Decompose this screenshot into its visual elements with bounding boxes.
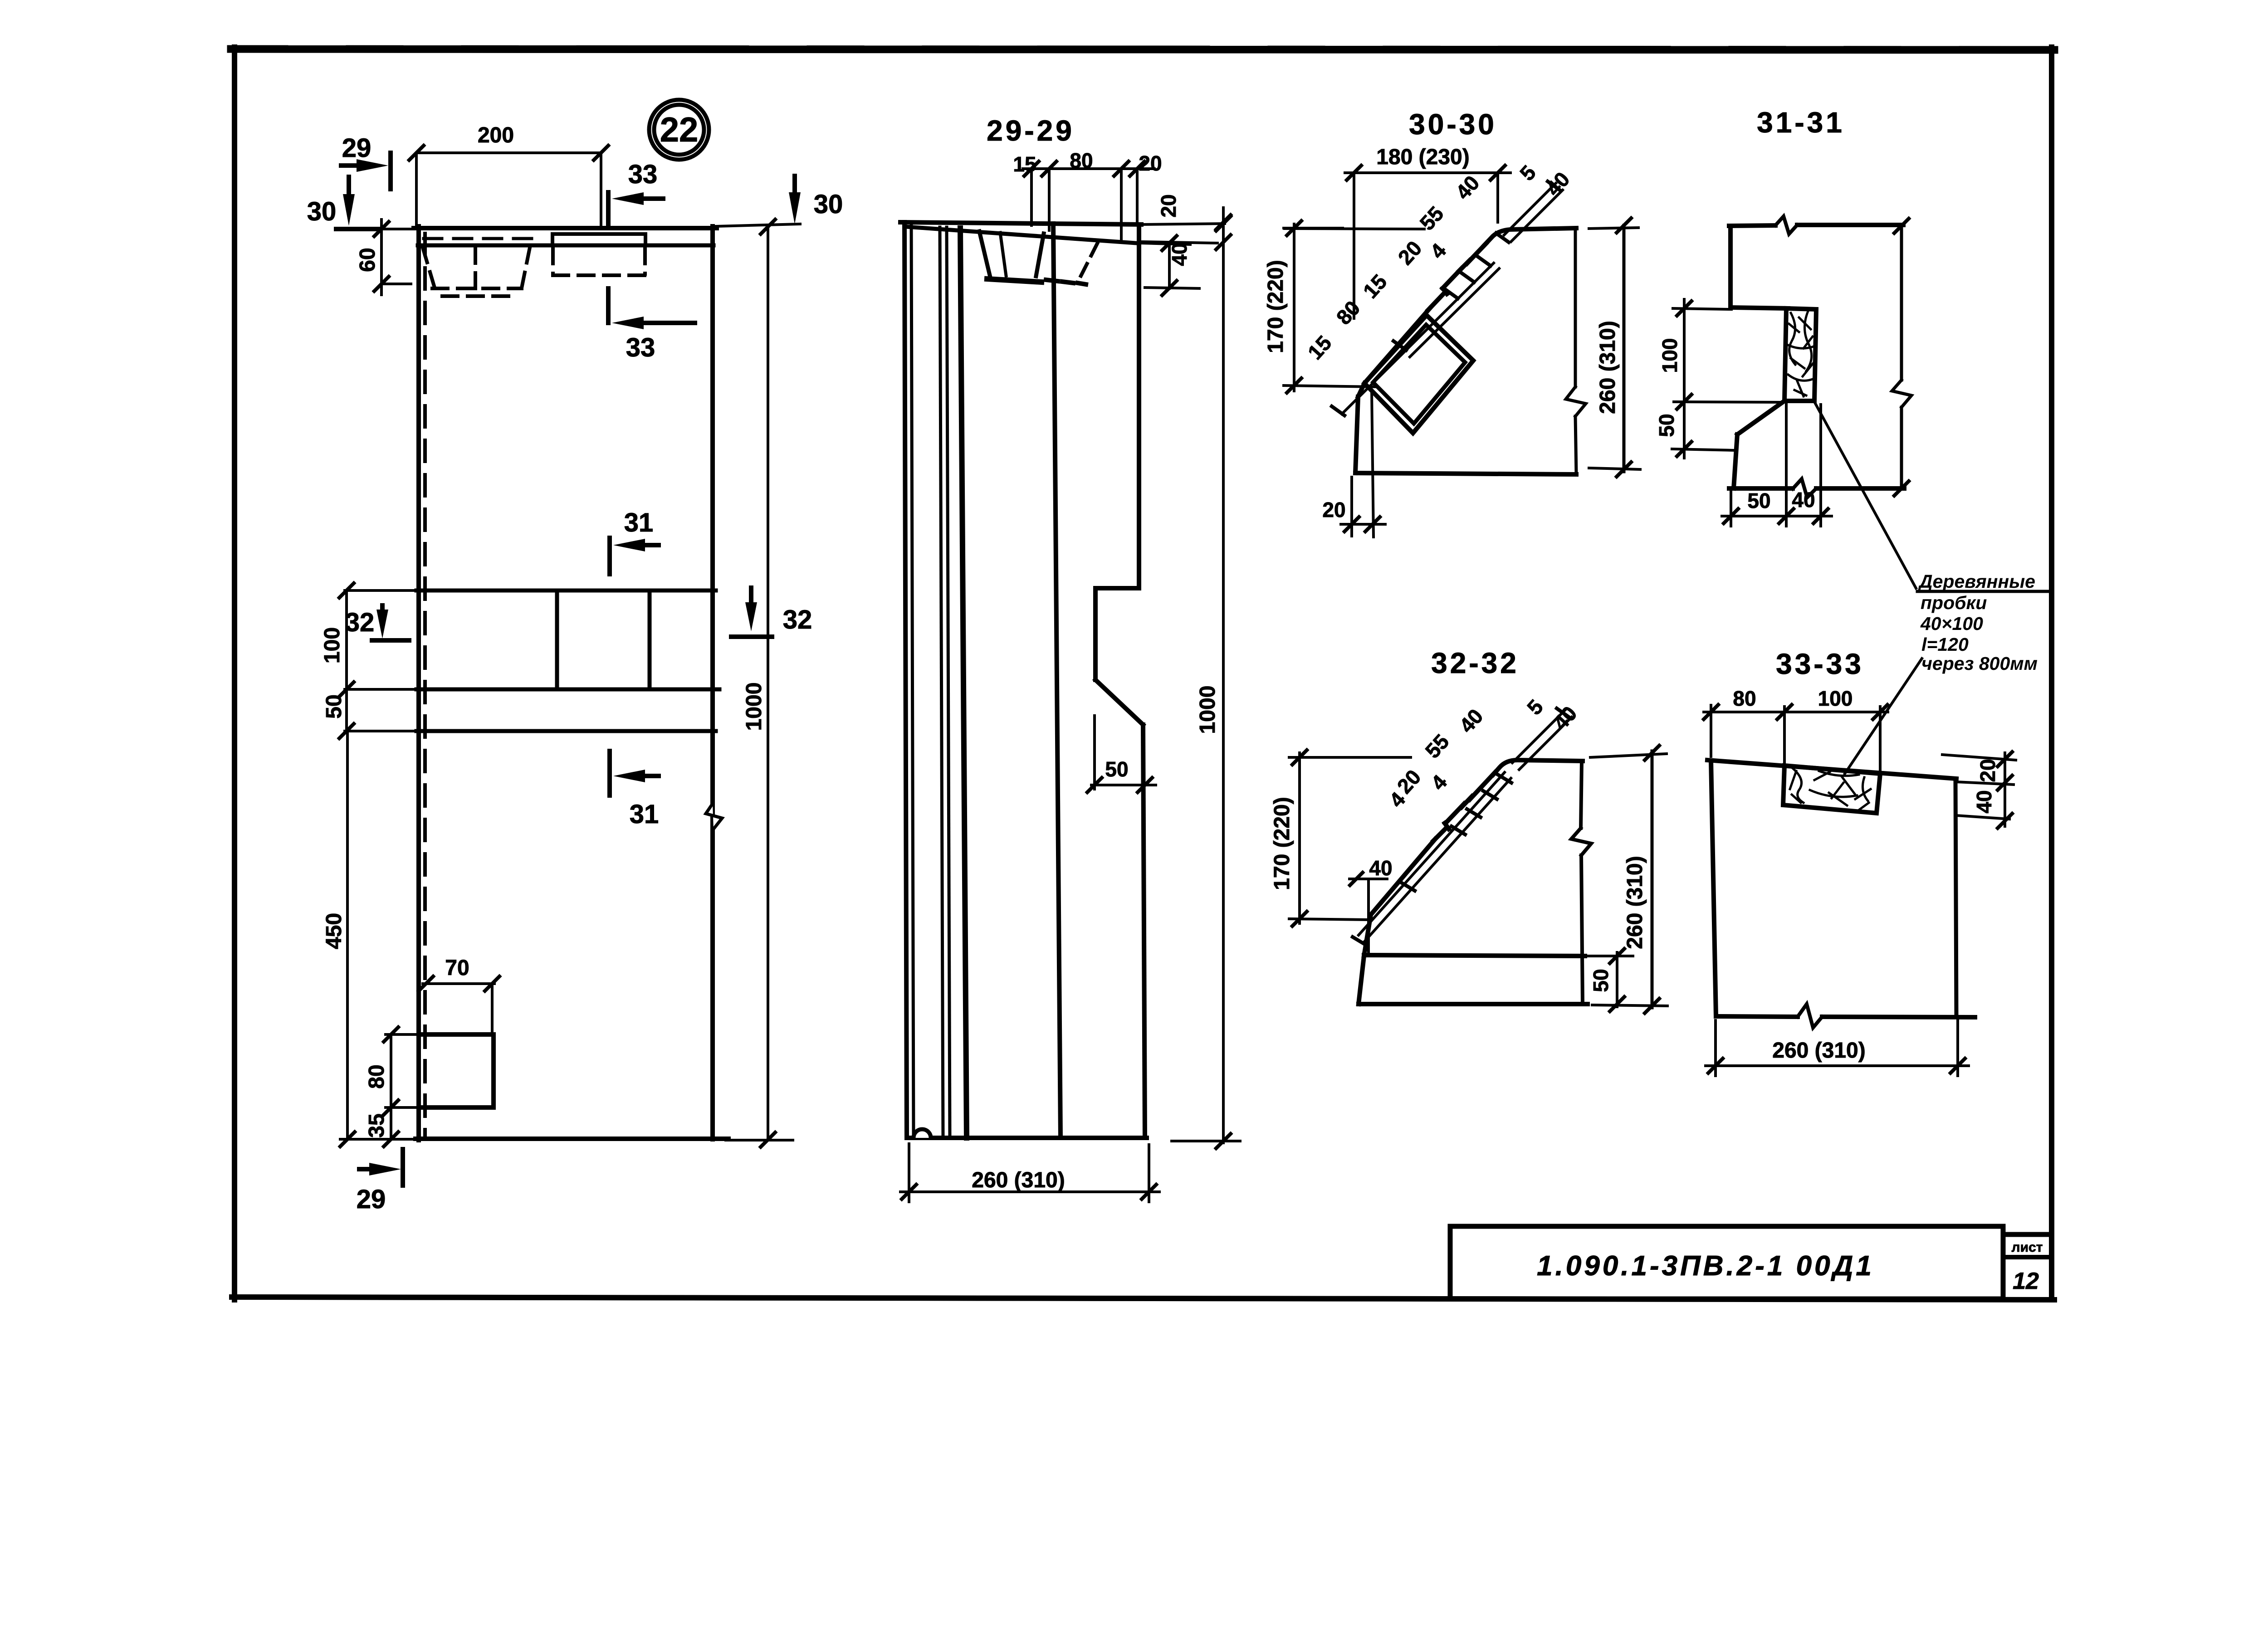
svg-text:33-33: 33-33 bbox=[1776, 648, 1864, 680]
panel elevation: outline bbox=[414, 226, 728, 1140]
svg-text:450: 450 bbox=[322, 913, 346, 949]
svg-text:33: 33 bbox=[628, 160, 658, 189]
svg-text:30: 30 bbox=[307, 197, 337, 226]
section 33-33: dim 260 (310) bottom bbox=[1706, 1020, 1969, 1076]
svg-text:12: 12 bbox=[2013, 1268, 2039, 1294]
svg-text:60: 60 bbox=[356, 248, 380, 272]
section 29-29: vertical profile lines bbox=[904, 222, 1061, 1138]
section 29-29: pocket hidden dashes bbox=[1046, 280, 1086, 284]
dimension 80 (notch) bbox=[384, 1027, 422, 1115]
section mark 33 top bbox=[608, 192, 663, 227]
dimension 200 bbox=[409, 146, 608, 227]
panel elevation: top flange inner line bbox=[418, 244, 714, 248]
section mark 32 left bbox=[372, 605, 409, 640]
section 32-32: oblique dims along slope bbox=[1353, 708, 1572, 945]
section 33-33: top edge (sloped) bbox=[1707, 760, 1956, 779]
section 32-32: oblique dim labels bbox=[1384, 695, 1581, 812]
svg-text:80: 80 bbox=[1733, 687, 1756, 710]
svg-text:50: 50 bbox=[1655, 414, 1678, 437]
section mark 31 upper bbox=[610, 538, 659, 574]
svg-text:через 800мм: через 800мм bbox=[1921, 653, 2038, 674]
svg-text:22: 22 bbox=[660, 111, 699, 149]
section mark 30 right bbox=[789, 176, 801, 224]
panel elevation: hidden edge dashed line bbox=[423, 234, 427, 1136]
section 33-33: left edge bbox=[1711, 761, 1716, 1016]
svg-text:100: 100 bbox=[320, 627, 344, 663]
section 29-29: bottom edge with key notch bbox=[909, 1136, 1147, 1140]
panel elevation: break mark on right edge bbox=[706, 804, 722, 829]
svg-text:35: 35 bbox=[365, 1113, 389, 1137]
section 33-33: dims 20 40 right bbox=[1942, 752, 2016, 828]
section 31-31: wood grain bbox=[1787, 311, 1813, 396]
section mark 29 bottom bbox=[359, 1149, 403, 1185]
note underline bbox=[1917, 590, 2048, 593]
svg-text:33: 33 bbox=[626, 333, 655, 362]
svg-text:80: 80 bbox=[365, 1064, 389, 1088]
section 29-29: dim 260 (310) bbox=[900, 1144, 1159, 1202]
section 29-29: dim 20 right bbox=[1143, 216, 1231, 249]
detail mark circle 22 bbox=[649, 100, 709, 160]
section 29-29: sloped inner top line bbox=[906, 227, 1136, 243]
svg-text:170 (220): 170 (220) bbox=[1270, 797, 1294, 890]
section 32-32: mortar strip line bbox=[1364, 955, 1585, 956]
svg-text:70: 70 bbox=[445, 956, 469, 980]
dimension 450 bbox=[340, 733, 419, 1146]
section mark 33 lower bbox=[608, 288, 695, 329]
panel elevation: hidden recess trapezoid bbox=[423, 248, 530, 296]
leader line from note to 33-33 plug bbox=[1845, 659, 1922, 774]
section 30-30: right cut line with break bbox=[1566, 228, 1586, 474]
panel elevation: middle band lines bbox=[345, 590, 719, 731]
svg-text:15: 15 bbox=[1013, 152, 1036, 176]
section mark 29 top bbox=[341, 153, 391, 189]
svg-text:100: 100 bbox=[1658, 338, 1681, 373]
section 29-29: dim 40 pocket depth bbox=[1139, 236, 1199, 295]
section 30-30: dim 20 bottom bbox=[1341, 391, 1385, 537]
section 31-31: bottom edge with break bbox=[1729, 479, 1904, 498]
dimension 100 (band) bbox=[339, 583, 354, 733]
svg-text:l=120: l=120 bbox=[1921, 634, 1969, 655]
svg-text:лист: лист bbox=[2012, 1240, 2043, 1255]
svg-text:29: 29 bbox=[342, 133, 371, 163]
svg-text:260 (310): 260 (310) bbox=[1772, 1039, 1865, 1063]
section 31-31: dims 50 40 bottom bbox=[1722, 405, 1832, 526]
section 30-30: dim 170 (220) bbox=[1284, 221, 1377, 393]
section 29-29: dim 50 step bbox=[1087, 716, 1156, 792]
section 29-29: right edge with step bbox=[1095, 224, 1145, 1138]
svg-text:20: 20 bbox=[1157, 194, 1180, 217]
svg-text:50: 50 bbox=[1747, 489, 1770, 512]
section 32-32: top surface bbox=[1493, 760, 1583, 775]
section 30-30: stepped slope edge bbox=[1364, 244, 1486, 383]
section 31-31: right cut line with break bbox=[1892, 219, 1911, 496]
svg-text:30: 30 bbox=[814, 190, 843, 219]
section 32-32: dim 260 (310) bbox=[1590, 746, 1667, 1013]
panel elevation: solid insert plate at top bbox=[552, 234, 645, 245]
svg-text:30-30: 30-30 bbox=[1409, 108, 1497, 141]
leader line from plug to note bbox=[1814, 402, 1916, 588]
section 31-31: wood plug block bbox=[1784, 308, 1816, 401]
svg-text:40: 40 bbox=[1792, 488, 1815, 512]
panel elevation: band dividers bbox=[557, 590, 650, 689]
section 30-30: keyway diamond bbox=[1364, 315, 1473, 433]
svg-text:200: 200 bbox=[478, 123, 514, 147]
section 33-33: right edge bbox=[1955, 779, 1956, 1017]
section 31-31: lower left edge bbox=[1734, 434, 1737, 488]
section 31-31: chamfer below block bbox=[1737, 401, 1784, 434]
section 29-29: dims 15 80 20 bbox=[1023, 161, 1154, 242]
svg-text:31-31: 31-31 bbox=[1757, 106, 1845, 139]
section 32-32: right cut line with break bbox=[1571, 761, 1591, 1004]
svg-text:80: 80 bbox=[1070, 149, 1093, 172]
section 33-33: bottom edge with break bbox=[1716, 1004, 1975, 1028]
section 31-31: notch top bbox=[1730, 307, 1788, 308]
svg-text:260 (310): 260 (310) bbox=[1596, 321, 1620, 414]
svg-text:29-29: 29-29 bbox=[987, 114, 1075, 147]
section 32-32: dim 170 (220) bbox=[1289, 750, 1411, 926]
section 30-30: oblique dims along slope bbox=[1332, 181, 1563, 415]
section 32-32: lower left edge bbox=[1359, 915, 1371, 1004]
section mark 32 right bbox=[731, 588, 772, 637]
section 29-29: pocket dashed slant bbox=[1078, 244, 1097, 281]
svg-text:32: 32 bbox=[783, 605, 812, 634]
section 31-31: left edge bbox=[1728, 226, 1733, 308]
section 33-33: dim 80 top bbox=[1704, 705, 1794, 763]
section 33-33: wood plug block bbox=[1783, 766, 1880, 813]
panel elevation: dashed seam under top edge bbox=[424, 237, 535, 240]
svg-text:20: 20 bbox=[1139, 151, 1162, 175]
panel elevation: bottom-left notch bbox=[421, 1034, 494, 1107]
svg-text:20: 20 bbox=[1322, 498, 1345, 522]
svg-text:180 (230): 180 (230) bbox=[1376, 145, 1469, 169]
section 33-33: dim 100 top bbox=[1784, 705, 1888, 771]
section 32-32: stepped slope edge bbox=[1371, 772, 1495, 915]
svg-text:20: 20 bbox=[1976, 759, 1999, 782]
title block bbox=[1450, 1226, 2052, 1299]
svg-text:32: 32 bbox=[345, 608, 375, 637]
svg-text:пробки: пробки bbox=[1921, 592, 1987, 613]
section 32-32: bottom edge bbox=[1359, 1002, 1588, 1006]
section 29-29: top edge bbox=[900, 222, 1141, 224]
svg-text:50: 50 bbox=[1589, 969, 1613, 992]
panel elevation: hidden insert rectangle bbox=[553, 248, 645, 275]
svg-text:1000: 1000 bbox=[742, 683, 766, 731]
section 30-30: bottom edge bbox=[1355, 473, 1576, 474]
svg-text:29: 29 bbox=[357, 1185, 386, 1214]
section 30-30: lower left edge bbox=[1355, 383, 1364, 473]
svg-text:31: 31 bbox=[630, 800, 659, 829]
svg-text:32-32: 32-32 bbox=[1431, 647, 1519, 679]
section 29-29: dim 1000 bbox=[1172, 208, 1240, 1148]
section 30-30: dim 180 (230) bbox=[1345, 166, 1510, 318]
note: wooden plugs text bbox=[1918, 571, 2038, 674]
svg-text:50: 50 bbox=[1105, 757, 1128, 781]
svg-text:170 (220): 170 (220) bbox=[1264, 260, 1288, 353]
svg-text:1.090.1-3ПВ.2-1 00Д1: 1.090.1-3ПВ.2-1 00Д1 bbox=[1537, 1250, 1874, 1282]
section mark 30 left bbox=[336, 177, 380, 229]
section 31-31: top edge with break bbox=[1729, 216, 1903, 234]
svg-text:50: 50 bbox=[322, 694, 346, 718]
svg-text:40: 40 bbox=[1369, 856, 1392, 880]
svg-text:260 (310): 260 (310) bbox=[1623, 856, 1647, 949]
section 32-32: dim 40 left bbox=[1349, 873, 1387, 955]
section 30-30: oblique dim labels bbox=[1303, 161, 1574, 364]
svg-text:31: 31 bbox=[624, 508, 654, 537]
svg-text:Деревянные: Деревянные bbox=[1918, 571, 2035, 592]
svg-text:100: 100 bbox=[1818, 687, 1853, 710]
dimension 70 bbox=[419, 976, 499, 1033]
section 30-30: top surface bbox=[1484, 228, 1576, 245]
dimension 50 (band) bbox=[339, 724, 354, 738]
dimension 35 bbox=[384, 1107, 398, 1146]
section mark 31 lower bbox=[610, 751, 659, 795]
svg-text:40×100: 40×100 bbox=[1920, 613, 1983, 634]
section 29-29: pocket walls bbox=[979, 231, 1044, 282]
svg-text:260 (310): 260 (310) bbox=[972, 1168, 1065, 1192]
svg-text:1000: 1000 bbox=[1196, 686, 1220, 734]
svg-text:40: 40 bbox=[1972, 790, 1996, 813]
section 32-32: dim 50 right bbox=[1587, 949, 1633, 1011]
sheet frame bbox=[231, 47, 2054, 1300]
dimension 1000 (elevation) bbox=[716, 220, 800, 1147]
section 31-31: dim 50 left bbox=[1672, 442, 1735, 456]
svg-text:40: 40 bbox=[1168, 243, 1191, 266]
dimension 60 bbox=[374, 220, 411, 295]
section 31-31: dim 100 bbox=[1673, 299, 1783, 458]
section 33-33: wood grain bbox=[1790, 768, 1871, 810]
section 30-30: dim 260 (310) bbox=[1589, 218, 1640, 477]
